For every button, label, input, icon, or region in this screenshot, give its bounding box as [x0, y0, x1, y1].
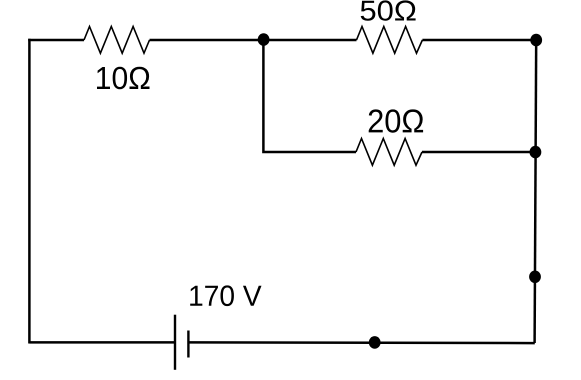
label 50 ohm value of R2: [361, 0, 416, 20]
battery V1 long plate: [174, 315, 176, 370]
label 20 ohm value of R3: [369, 109, 423, 132]
node B junction dot (top right): [530, 34, 542, 47]
battery V1 short plate: [187, 331, 189, 358]
wire: left vertical side: [28, 39, 31, 344]
label 170 V value of battery: [190, 285, 261, 306]
wire: R1 to node A and on to resistor R2: [150, 39, 357, 42]
resistor R1 zigzag (10 ohm): [84, 27, 150, 54]
node D junction dot (right middle): [529, 271, 541, 284]
wire: battery to bottom-right corner: [188, 341, 534, 344]
node A junction dot: [258, 33, 270, 46]
wire: top-left from corner to resistor R1: [28, 39, 84, 42]
node C junction dot (right, 20 ohm branch): [530, 146, 542, 159]
wire: right vertical side: [535, 39, 537, 343]
resistor R2 zigzag (50 ohm): [357, 27, 423, 54]
wire: R2 to node B: [422, 39, 536, 42]
resistor R3 zigzag (20 ohm): [356, 139, 422, 166]
wire: node A down to parallel branch: [263, 40, 356, 152]
wire: R3 to node C: [422, 151, 535, 154]
wire: bottom from left corner to battery: [29, 341, 175, 344]
label 10 ohm value of R1: [97, 67, 150, 90]
node E junction dot (bottom): [369, 336, 381, 349]
